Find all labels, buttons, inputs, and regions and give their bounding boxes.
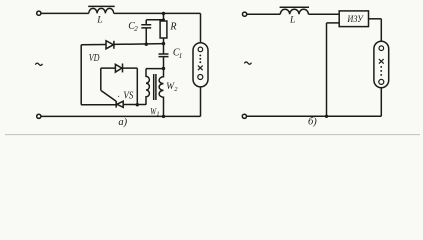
wire lamp a top vertical xyxy=(200,13,202,43)
wire bottom rail b xyxy=(247,115,381,117)
svg-text:L: L xyxy=(289,15,295,25)
wire VS cathode (loop bottom) xyxy=(81,104,116,106)
svg-text:VD: VD xyxy=(89,53,100,64)
wire C2 branch horizontal xyxy=(146,19,163,21)
resistor R1 box xyxy=(160,21,167,38)
diode VD2 xyxy=(115,64,121,72)
capacitor C2 xyxy=(141,25,151,28)
lamp EL2 envelope xyxy=(374,41,389,87)
lamp EL2 top electrode circle xyxy=(379,46,384,51)
svg-text:VS: VS xyxy=(123,90,133,101)
capacitor C1 xyxy=(159,54,169,57)
wire C2 bottom to junction xyxy=(145,28,147,44)
wire gate diagonal xyxy=(101,90,116,101)
wire gate-diode column vertical xyxy=(136,68,138,105)
wire inner loop left vertical xyxy=(100,68,102,90)
inductor L2 core line xyxy=(280,6,309,8)
lamp EL1 envelope xyxy=(193,43,208,87)
terminal top-left b xyxy=(243,12,247,16)
wire C1 bottom xyxy=(163,57,165,68)
thyristor VS triangle xyxy=(117,101,123,107)
wire igniter right to lamp xyxy=(369,18,382,20)
terminal top-left a xyxy=(37,11,41,15)
svg-text:2: 2 xyxy=(134,25,138,33)
lamp EL1 bottom electrode circle xyxy=(198,75,203,80)
transformer core xyxy=(154,74,156,100)
svg-text:L: L xyxy=(96,16,102,26)
node anode wire / gate diode column xyxy=(136,103,139,106)
terminal bottom-left b xyxy=(242,114,246,118)
inductor L1 bumps xyxy=(89,8,114,13)
wire C2 top stub xyxy=(145,20,147,25)
inductor L1 core line xyxy=(88,5,115,7)
wire top rail b (terminal to inductor) xyxy=(247,13,280,15)
scan artifact bottom rule xyxy=(5,134,420,136)
svg-text:б): б) xyxy=(308,116,317,127)
wire VD top (loop top, y44) xyxy=(81,44,163,45)
node igniter branch bottom rail xyxy=(325,115,328,118)
diode VD xyxy=(106,41,114,49)
AC source tilde a xyxy=(35,63,42,65)
svg-text:R: R xyxy=(169,21,176,32)
wire R column top xyxy=(163,14,165,22)
thyristor VS cathode bar xyxy=(115,101,117,108)
wire top rail a (inductor to lamp corner) xyxy=(114,12,201,14)
lamp EL1 x mark xyxy=(198,66,203,71)
lamp EL1 top electrode circle xyxy=(198,47,203,52)
wire R bottom xyxy=(163,38,165,44)
wire top rail b (inductor to igniter) xyxy=(308,13,339,15)
wire bottom rail a xyxy=(41,115,200,117)
wire outer loop left vertical xyxy=(80,45,82,105)
node transformer top xyxy=(162,67,165,70)
node W2 bottom rail xyxy=(162,115,165,118)
svg-text:ИЗУ: ИЗУ xyxy=(347,15,365,25)
node C2 branch xyxy=(162,18,165,21)
svg-text:2: 2 xyxy=(174,86,178,93)
inductor L2 bumps xyxy=(280,9,308,14)
lamp EL2 dots xyxy=(380,66,382,68)
igniter box U1 xyxy=(339,11,368,27)
svg-text:а): а) xyxy=(118,117,127,128)
AC source tilde b xyxy=(244,62,251,64)
wire igniter lower-left vertical xyxy=(326,23,328,116)
lamp EL2 bottom electrode circle xyxy=(379,79,384,84)
node C2/junction wire xyxy=(145,43,148,46)
node top rail / R column xyxy=(162,12,165,15)
speckle dot before VS xyxy=(118,96,119,97)
wire top rail a (terminal to inductor) xyxy=(41,12,89,14)
winding W1 xyxy=(146,69,149,105)
terminal bottom-left a xyxy=(37,114,41,118)
svg-text:1: 1 xyxy=(179,52,183,60)
wire C1 column top xyxy=(163,44,165,54)
wire lamp b top vertical xyxy=(380,19,382,42)
wire diode2 row xyxy=(101,67,138,69)
lamp EL2 x mark xyxy=(379,59,384,64)
wire VS anode to W1 xyxy=(123,104,146,106)
winding W2 xyxy=(159,69,163,117)
wire igniter lower-left horizontal xyxy=(327,22,340,24)
wire lamp b bottom vertical xyxy=(380,88,382,117)
wire lamp a bottom vertical xyxy=(200,87,202,117)
wire W1 top horizontal xyxy=(146,68,164,70)
node R/junction wire xyxy=(162,42,165,45)
lamp EL1 dots xyxy=(199,54,201,56)
